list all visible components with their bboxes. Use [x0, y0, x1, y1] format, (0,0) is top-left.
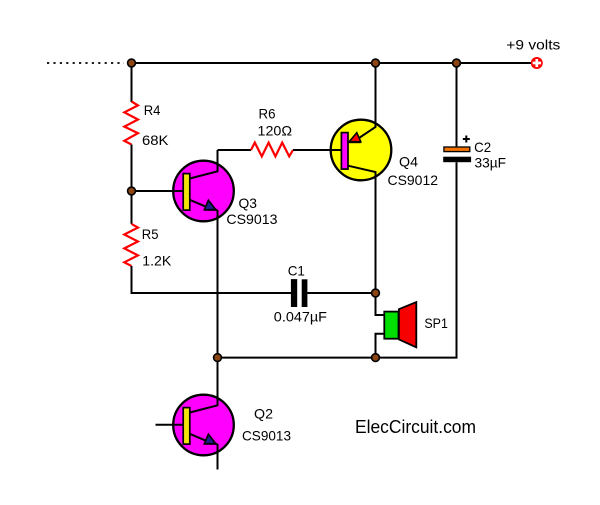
svg-text:R5: R5 [142, 226, 159, 242]
wire: junction to R5 top [131, 191, 133, 224]
label: Q4 [399, 154, 418, 170]
svg-text:68K: 68K [142, 132, 169, 148]
wire: R5 bottom L-bend to C1 left plate [132, 266, 292, 293]
node: rail junction at C2 [453, 59, 461, 67]
label: 0.047uF [274, 309, 327, 325]
svg-text:Q3: Q3 [239, 195, 258, 211]
transistor Q3 [132, 150, 234, 221]
label: 33uF [475, 155, 507, 171]
label: SP1 [424, 315, 448, 331]
svg-text:0.047µF: 0.047µF [274, 309, 327, 325]
label: R4 [144, 102, 161, 118]
svg-text:ElecCircuit.com: ElecCircuit.com [355, 417, 476, 437]
resistor R6 [251, 143, 293, 157]
+9 volts supply terminal [531, 57, 543, 69]
wire: Q3 emitter down to bottom rail [217, 210, 219, 358]
label: C1 [288, 262, 305, 278]
transistor Q4 [330, 63, 391, 293]
wire: R6 to Q4 base [293, 149, 341, 151]
wire: speaker top lead [376, 293, 385, 315]
node: junction R4/R5/Q3 base [128, 187, 136, 195]
label: 68K [142, 132, 169, 148]
wire: Q3 base wire [132, 190, 186, 192]
resistor R5 [124, 224, 138, 266]
svg-text:120Ω: 120Ω [258, 123, 293, 139]
svg-text:CS9013: CS9013 [226, 211, 277, 227]
label: R5 [142, 226, 159, 242]
label: CS9013 (Q3) [226, 211, 277, 227]
node: junction C1 / Q4 collector / speaker [372, 289, 380, 297]
wire: Q3 collector riser to R6 [218, 149, 252, 151]
wire: speaker bottom lead [376, 334, 385, 358]
wire: bottom rail to Q2 collector [190, 358, 218, 413]
speaker SP1 [384, 302, 416, 347]
wire: Q4 base wire (inside circle) [330, 149, 343, 151]
label: +9 volts [506, 36, 560, 52]
transistor Q2 [156, 358, 234, 470]
resistor R4 [124, 102, 138, 145]
svg-text:C2: C2 [474, 139, 491, 155]
node: rail junction at R4 top [128, 59, 136, 67]
wire: C1 right plate to speaker node [307, 292, 375, 294]
wire: bottom rail [218, 357, 458, 359]
wire: Q2 base wire [156, 424, 186, 426]
label: C2 [474, 139, 491, 155]
label: Q3 [239, 195, 258, 211]
label: 120ohm [258, 123, 293, 139]
svg-text:Q4: Q4 [399, 154, 418, 170]
capacitor C1 [291, 279, 308, 307]
label: CS9013 (Q2) [242, 428, 291, 444]
capacitor C2 [443, 63, 471, 358]
label: Q2 [254, 406, 273, 422]
node: bottom rail junction at speaker return [372, 354, 380, 362]
svg-text:Q2: Q2 [254, 406, 273, 422]
label: 1.2K [142, 252, 172, 268]
svg-text:C1: C1 [288, 262, 305, 278]
label: R6 [259, 106, 276, 122]
svg-text:R6: R6 [259, 106, 276, 122]
svg-text:+9 volts: +9 volts [506, 36, 560, 52]
wire: R4 bottom to base junction [131, 145, 133, 192]
svg-text:1.2K: 1.2K [142, 252, 172, 268]
node: bottom rail junction at Q3 emitter / Q2 collector [214, 354, 222, 362]
label: CS9012 [388, 172, 439, 188]
label: ElecCircuit.com watermark [355, 417, 476, 437]
wire: +9V top rail [132, 62, 532, 64]
svg-text:R4: R4 [144, 102, 161, 118]
svg-text:SP1: SP1 [424, 315, 448, 331]
wire: rail to R4 top [131, 63, 133, 102]
svg-text:33µF: 33µF [475, 155, 507, 171]
node: rail junction at Q4 emitter [372, 59, 380, 67]
wire: dotted input segment of +9V rail [47, 62, 124, 64]
svg-text:CS9012: CS9012 [388, 172, 439, 188]
svg-text:CS9013: CS9013 [242, 428, 291, 444]
